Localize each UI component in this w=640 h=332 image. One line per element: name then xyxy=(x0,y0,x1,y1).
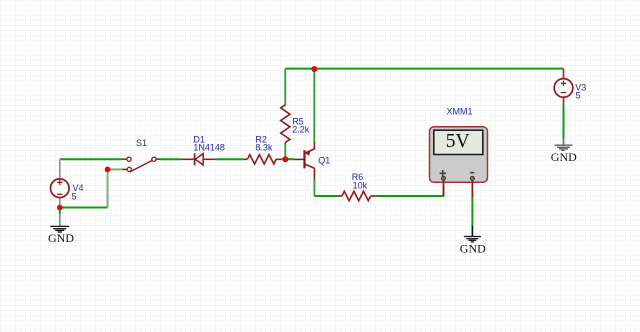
svg-text:1N4148: 1N4148 xyxy=(193,142,225,152)
svg-text:GND: GND xyxy=(48,231,74,245)
svg-text:GND: GND xyxy=(460,241,486,255)
svg-text:2.2k: 2.2k xyxy=(292,125,310,135)
svg-text:GND: GND xyxy=(551,150,577,164)
svg-text:S1: S1 xyxy=(136,138,147,148)
svg-text:8.3k: 8.3k xyxy=(255,142,273,152)
svg-text:5: 5 xyxy=(576,91,581,101)
svg-text:XMM1: XMM1 xyxy=(447,106,473,116)
svg-text:5V: 5V xyxy=(446,131,470,152)
svg-text:Q1: Q1 xyxy=(318,155,330,165)
svg-text:10k: 10k xyxy=(353,181,368,191)
svg-text:5: 5 xyxy=(72,192,77,202)
